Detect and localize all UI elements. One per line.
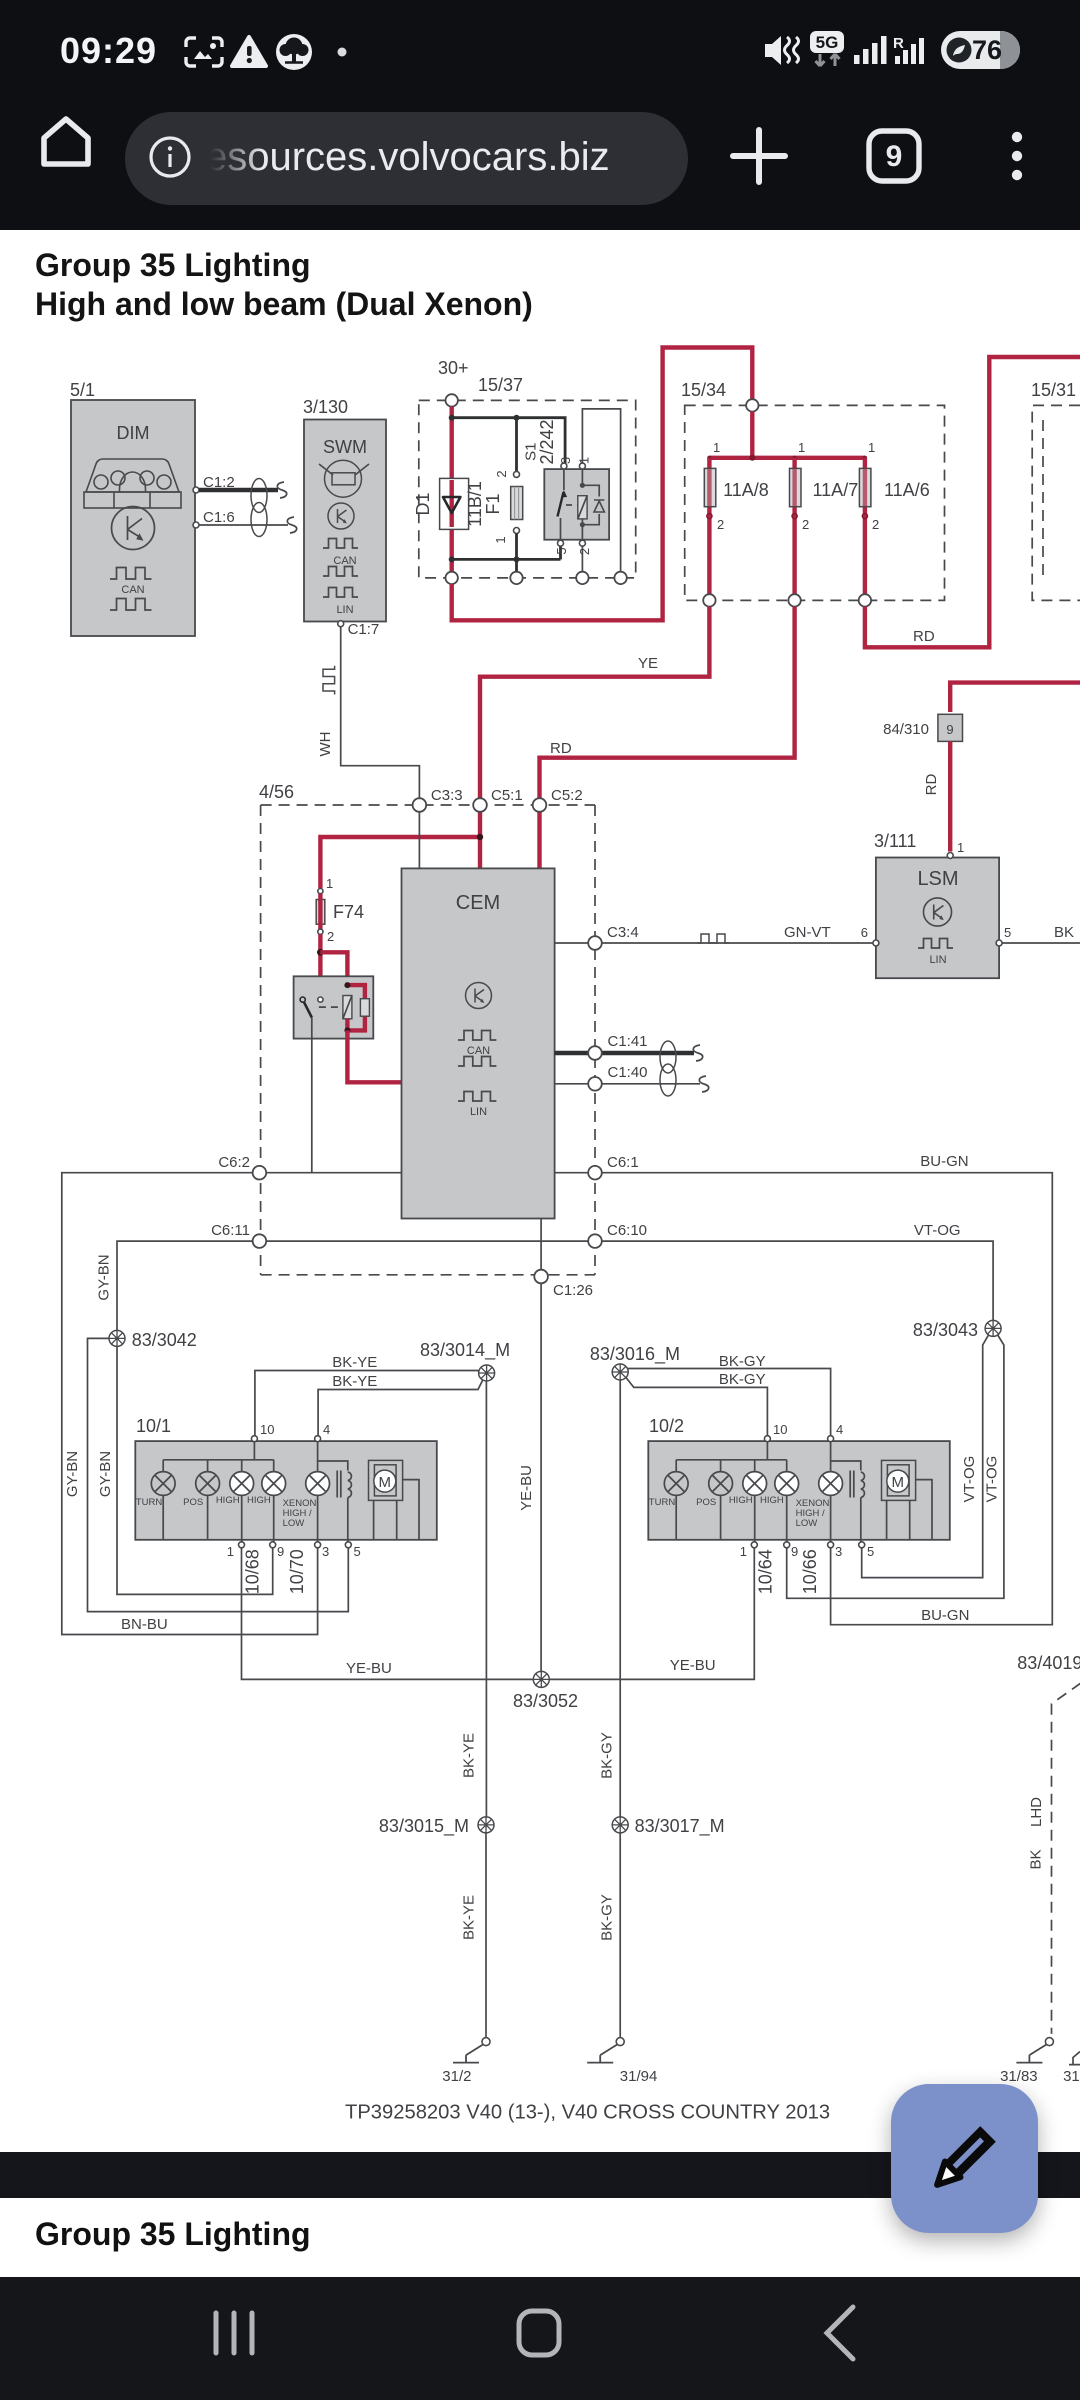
connector C6:1 [588,1166,602,1180]
svg-text:30+: 30+ [438,358,469,378]
pin 6 [873,940,879,946]
svg-text:BN-BU: BN-BU [121,1616,168,1633]
pin 10 [251,1436,257,1442]
diode D1 [440,478,469,529]
svg-text:2: 2 [872,517,879,532]
svg-text:1: 1 [493,536,508,543]
wire VT-OG C6:10 to splice 83/3043 [602,1241,993,1320]
svg-text:4: 4 [836,1422,843,1437]
wire BK-YE lamp 10/1 pin 10 to splice 83/3014_M [255,1371,485,1442]
svg-text:C3:3: C3:3 [431,787,463,804]
svg-text:CAN: CAN [121,584,144,596]
headlamp unit 10/1 [135,1416,437,1594]
svg-text:WH: WH [317,732,334,757]
svg-text:TURN: TURN [649,1497,676,1508]
wire BK-YE splice to splice 83/3015_M [485,1381,487,1817]
svg-text:5: 5 [554,547,569,554]
svg-text:1: 1 [957,840,964,855]
svg-text:76: 76 [972,35,1002,65]
svg-text:HIGH: HIGH [729,1495,753,1506]
wire from C3:3 into CEM [418,812,420,868]
xenon igniter [337,1471,341,1498]
svg-text:83/3043: 83/3043 [913,1320,978,1340]
svg-text:HIGH: HIGH [247,1495,271,1506]
svg-text:1: 1 [740,1544,747,1559]
pin 1 [947,853,953,859]
svg-text:2: 2 [327,929,334,944]
splice 83/3015_M [478,1817,494,1833]
svg-text:83/3017_M: 83/3017_M [635,1816,725,1837]
instrument module DIM 5/1 [70,380,235,636]
svg-text:GN-VT: GN-VT [784,924,831,941]
svg-text:11A/6: 11A/6 [884,480,930,500]
headlamp levelling motor M [882,1460,916,1500]
svg-text:BU-GN: BU-GN [921,1607,969,1624]
headlamp levelling motor M [369,1460,403,1500]
lamp TURN [664,1472,688,1496]
svg-text:YE-BU: YE-BU [346,1660,392,1677]
lamp TURN [151,1472,175,1496]
svg-text:1: 1 [227,1544,234,1559]
svg-text:C6:10: C6:10 [607,1222,647,1239]
wire BK-GY splice to splice 83/3017_M [619,1380,621,1817]
svg-text:POS: POS [183,1497,203,1508]
svg-text:11B/1: 11B/1 [465,481,485,527]
svg-text:1: 1 [577,457,592,464]
svg-text:CEM: CEM [456,892,500,914]
fuse 11A/8 [704,440,769,600]
wire RD F74 to relay [318,934,322,997]
svg-text:CAN: CAN [333,555,356,567]
svg-text:15/31: 15/31 [1031,380,1076,400]
svg-text:BK-GY: BK-GY [719,1353,766,1370]
svg-text:10/66: 10/66 [800,1549,820,1594]
svg-text:YE: YE [638,655,658,672]
svg-text:BK: BK [1028,1849,1045,1869]
svg-text:LIN: LIN [929,954,946,966]
wire RD C5:2 into CEM [537,811,541,868]
svg-text:F1: F1 [483,493,503,514]
wire BN-BU C6:2 to lamp 10/1 pin 3 [62,1173,318,1635]
svg-text:High and low beam (Dual Xenon): High and low beam (Dual Xenon) [35,286,533,322]
connector C1:26 [540,1219,542,1270]
central electronic module CEM [402,868,555,1218]
wire BK from LSM pin 5 [1002,942,1080,944]
svg-text:BK-YE: BK-YE [332,1354,377,1371]
svg-text:C1:7: C1:7 [348,621,380,638]
lamp HIGH [775,1472,799,1496]
svg-text:5/1: 5/1 [70,380,95,400]
splice 83/3042 [109,1330,125,1346]
fuse box 15/31 (partial) [1031,380,1080,600]
wire RD relay to CEM [347,1030,401,1082]
wire RD from 15/37 to 15/34 [452,348,753,621]
connector 84/310 [883,714,962,741]
wire BK-GY lamp 10/2 pin 4 to splice 83/3016_M [626,1369,831,1442]
svg-text:10/64: 10/64 [756,1549,776,1594]
wire RD feed to 84/310 [950,683,1080,712]
svg-text:C6:2: C6:2 [218,1154,250,1171]
wire RD 11A/6 to right feed [865,357,1080,647]
svg-text:1: 1 [868,440,875,455]
svg-text:1: 1 [798,440,805,455]
svg-text:83/3052: 83/3052 [513,1691,578,1711]
pin 9 [784,1542,790,1548]
svg-text:3: 3 [322,1544,329,1559]
ground 31/2 [453,2038,490,2063]
wire BK-GY lamp 10/2 pin 10 to splice 83/3016_M [626,1378,767,1442]
svg-text:5: 5 [1004,925,1011,940]
svg-text:D1: D1 [413,492,433,515]
svg-text:10/1: 10/1 [136,1416,171,1436]
wire RD 84/310 to LSM pin 1 [948,741,952,851]
svg-text:RD: RD [923,774,940,796]
pin 1 [751,1542,757,1548]
svg-text:VT-OG: VT-OG [984,1456,1001,1503]
xenon igniter [850,1471,854,1498]
svg-text:2: 2 [577,548,592,555]
splice 83/3017_M [612,1817,628,1833]
svg-text:BU-GN: BU-GN [920,1153,968,1170]
splice 83/3052 [533,1671,549,1687]
wire C6:2 row inside 4/56 [266,1172,401,1174]
connector C6:11 [253,1234,267,1248]
svg-text:1: 1 [326,876,333,891]
wire GY-BN splice branch to lamp 10/1 pin 5 [88,1338,349,1611]
svg-text:RD: RD [913,628,935,645]
svg-text:84/310: 84/310 [883,721,929,738]
svg-text:31/94: 31/94 [620,2068,658,2085]
pin 5 [345,1542,351,1548]
light switch module LSM 3/111 [861,831,1011,978]
wire RD battery feed through D1 [450,407,454,572]
splice 83/3014_M [479,1365,495,1381]
fuse holder 15/37 [413,358,636,584]
svg-text:10: 10 [260,1422,274,1437]
wire C6:11 to C6:10 row [266,1240,588,1242]
svg-text:CAN: CAN [467,1045,490,1057]
svg-text:5: 5 [867,1544,874,1559]
svg-text:C5:2: C5:2 [551,787,583,804]
svg-text:LIN: LIN [336,604,353,616]
pin 9 [270,1542,276,1548]
relay S1 2/242 [544,469,609,540]
wire relay switch to C6:2 [311,1018,313,1173]
headlamp unit 10/2 [648,1416,950,1594]
connector C6:2 [253,1166,267,1180]
splice 83/3043 [985,1320,1001,1336]
status bar [0,0,1080,110]
svg-text:83/3042: 83/3042 [132,1330,197,1350]
svg-text:YE-BU: YE-BU [670,1657,716,1674]
connector C5:2 [533,798,547,812]
svg-text:BK: BK [1054,924,1074,941]
svg-text:2: 2 [802,517,809,532]
wire BK-YE to ground 31/2 [485,1833,487,2038]
svg-text:C1:41: C1:41 [608,1033,648,1050]
lamp XENON HIGH/LOW [306,1472,330,1496]
svg-text:POS: POS [696,1497,716,1508]
internal wiring [676,1442,787,1472]
svg-text:2/242: 2/242 [537,419,557,464]
browser toolbar [0,110,1080,230]
svg-text:4: 4 [323,1422,330,1437]
wire YE 11A/8 to C5:1 [480,607,709,798]
wire WH from SWM C1:7 to C3:3 [317,627,419,798]
svg-text:GY-BN: GY-BN [97,1451,114,1497]
svg-text:M: M [892,1474,905,1491]
CEM housing 4/56 [259,782,595,1275]
pin 5 [996,940,1002,946]
wire YE-BU C1:26 to splice 83/3052 [540,1283,542,1671]
svg-text:BK-GY: BK-GY [719,1371,766,1388]
wire loop pin1 to connector 4 [582,409,620,572]
wire BU-GN C6:1 to lamp 10/2 pin 3 [555,1173,1053,1625]
svg-text:11A/8: 11A/8 [723,480,769,500]
pin C1:7 [338,621,344,627]
svg-text:10/2: 10/2 [649,1416,684,1436]
svg-text:VT-OG: VT-OG [914,1222,961,1239]
svg-text:83/3014_M: 83/3014_M [420,1340,510,1361]
svg-text:10/68: 10/68 [243,1549,263,1594]
ground 31/xx (partial at edge) [1069,2052,1080,2065]
node 30+ [446,394,458,406]
pin 5 [859,1542,865,1548]
pin 3 [315,1542,321,1548]
connectors bottom of 15/37 [446,572,458,584]
wire GY-BN C6:11 to splice to lamp 10/1 pin 9 [117,1241,273,1594]
svg-text:C6:11: C6:11 [211,1222,250,1239]
svg-text:HIGH: HIGH [760,1495,784,1506]
svg-text:10/70: 10/70 [287,1549,307,1594]
svg-text:R: R [893,35,904,52]
svg-text:C1:6: C1:6 [203,509,235,526]
svg-text:M: M [379,1474,392,1491]
ground 31/83 [1016,2038,1053,2063]
svg-text:VT-OG: VT-OG [961,1456,978,1503]
node supply 15/34 [746,399,758,411]
svg-text:3: 3 [558,457,573,464]
wire BK-GY to ground 31/94 [619,1833,621,2038]
lamp HIGH [262,1472,286,1496]
svg-text:9: 9 [946,722,953,737]
wire VT-OG splice to lamp 10/2 pin 9 [787,1335,1004,1598]
fuse F1 11B/1 [514,471,520,477]
splice 83/3016_M [612,1364,628,1380]
svg-text:31/83: 31/83 [1000,2068,1038,2085]
page gap band [0,2152,1080,2198]
internal wiring [163,1442,274,1472]
svg-text:5G: 5G [816,33,839,52]
pin 4 [315,1436,321,1442]
svg-text:4/56: 4/56 [259,782,294,802]
twisted pair C1:41 C1:40 [555,1033,709,1096]
svg-text:Group 35 Lighting: Group 35 Lighting [35,247,311,283]
pin 4 [828,1436,834,1442]
fuse 11A/7 [790,440,859,600]
svg-text:10: 10 [773,1422,787,1437]
svg-text:3/111: 3/111 [874,831,916,851]
svg-text:HIGH: HIGH [216,1495,240,1506]
svg-text:C6:1: C6:1 [607,1154,639,1171]
svg-text:2: 2 [494,470,509,477]
svg-text:31/2: 31/2 [442,2068,471,2085]
svg-text:9: 9 [277,1544,284,1559]
ground 31/94 [587,2038,624,2063]
lamp POS [709,1472,733,1496]
svg-text:YE-BU: YE-BU [518,1465,535,1511]
svg-text:DIM: DIM [117,423,150,443]
svg-text:F74: F74 [333,902,364,922]
svg-text:C1:40: C1:40 [608,1064,648,1081]
svg-text:6: 6 [861,925,868,940]
svg-text:15/37: 15/37 [478,375,523,395]
pin 10 [764,1436,770,1442]
svg-text:LIN: LIN [470,1106,487,1118]
android navbar [0,2277,1080,2400]
svg-text:GY-BN: GY-BN [96,1254,113,1300]
pin 3 [828,1542,834,1548]
relay in 4/56 [294,976,374,1038]
wire RD fuse bus [709,412,865,458]
svg-text:C1:26: C1:26 [553,1282,593,1299]
wire BK-YE lamp 10/1 pin 4 to splice 83/3014_M [318,1376,485,1442]
steering wheel module SWM 3/130 [303,397,386,638]
wire VT-OG splice to lamp 10/2 pin 5 [862,1335,989,1578]
wire RD 11A/7 to C5:2 [540,607,795,798]
connector C3:4 [588,936,602,950]
svg-text:GY-BN: GY-BN [64,1451,81,1497]
svg-text:2: 2 [717,517,724,532]
connector C6:10 [588,1234,602,1248]
wire RD C5:1 into CEM with branch to F74 [478,811,482,868]
svg-text:TP39258203 V40 (13-), V40 CROS: TP39258203 V40 (13-), V40 CROSS COUNTRY … [345,2102,830,2124]
connector C3:3 [413,798,427,812]
black bus bottom [452,558,561,561]
svg-text:83/4019: 83/4019 [1017,1653,1080,1673]
black bus top [452,418,565,463]
fuse 11A/6 [859,440,929,600]
fuse F74 [316,876,364,944]
svg-text:9: 9 [791,1544,798,1559]
svg-text:BK-YE: BK-YE [461,1733,478,1778]
svg-text:LSM: LSM [917,868,958,890]
svg-text:5: 5 [354,1544,361,1559]
svg-text:3: 3 [835,1544,842,1559]
lamp POS [196,1472,220,1496]
connectors bottom of 15/34 [703,594,715,606]
svg-text:3/130: 3/130 [303,397,348,417]
svg-text:BK-YE: BK-YE [461,1895,478,1940]
wire GN-VT C3:4 to LSM [555,942,873,944]
svg-text:LOW: LOW [796,1518,818,1529]
svg-text:11A/7: 11A/7 [813,480,859,500]
pin 1 [239,1542,245,1548]
lamp XENON HIGH/LOW [819,1472,843,1496]
lamp HIGH [230,1472,254,1496]
lamp HIGH [743,1472,767,1496]
wire YE-BU lamp 10/1 pin 1 to lamp 10/2 pin 1 [242,1548,755,1680]
floating edit button [891,2084,1038,2233]
svg-text:31: 31 [1063,2068,1080,2085]
svg-text:TURN: TURN [136,1497,163,1508]
svg-text:83/3016_M: 83/3016_M [590,1344,680,1365]
pin C1:6 [193,522,199,528]
svg-text:9: 9 [886,140,903,173]
svg-text:SWM: SWM [323,437,367,457]
svg-text:BK-YE: BK-YE [332,1373,377,1390]
svg-text:LHD: LHD [1028,1797,1045,1827]
fuse box 15/34 [681,380,945,607]
connector C5:1 [473,798,487,812]
svg-text:C3:4: C3:4 [607,924,639,941]
svg-text:15/34: 15/34 [681,380,726,400]
pin C1:2 [193,487,199,493]
svg-text:LOW: LOW [283,1518,305,1529]
svg-text:C5:1: C5:1 [491,787,523,804]
twisted pair DIM to SWM [199,479,297,537]
svg-text:RD: RD [550,740,572,757]
svg-text:BK-GY: BK-GY [599,1894,616,1941]
svg-text:1: 1 [713,440,720,455]
svg-text:BK-GY: BK-GY [599,1732,616,1779]
svg-text:83/3015_M: 83/3015_M [379,1816,469,1837]
